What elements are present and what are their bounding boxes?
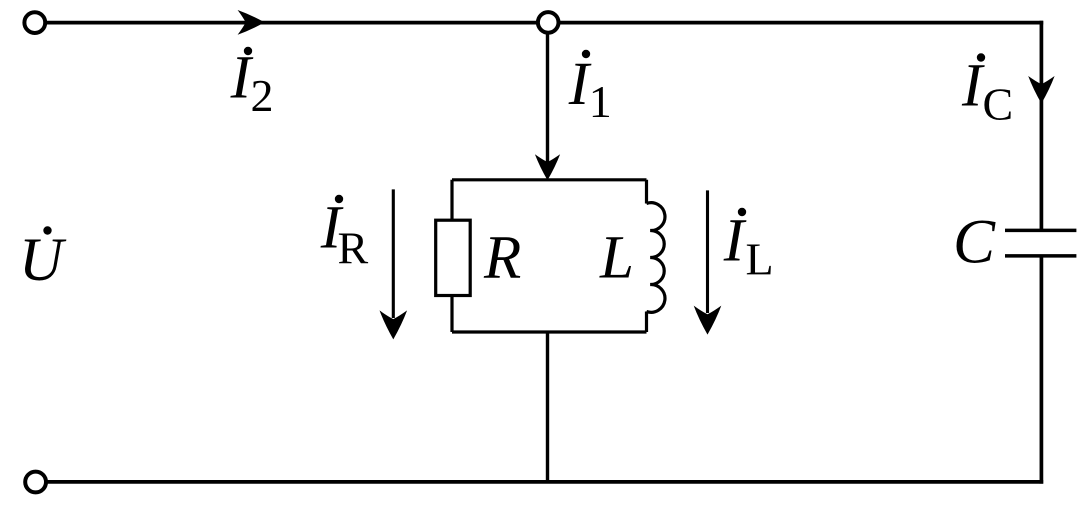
label: I1 with overdot and subscript 1: [568, 50, 612, 127]
wire: RL block bottom lead to bottom rail: [546, 332, 549, 483]
terminal: top-left open circle: [24, 12, 45, 33]
svg-text:U: U: [19, 227, 67, 294]
label: IL with overdot and subscript L: [723, 208, 774, 285]
arrowhead: current IR: [380, 310, 408, 339]
wire: right branch lower segment: [1040, 256, 1044, 484]
svg-text:L: L: [746, 233, 774, 284]
arrowhead: current IC on right branch: [1028, 76, 1054, 104]
capacitor C top plate: [1005, 229, 1076, 233]
svg-text:I: I: [723, 208, 747, 275]
arrow shaft: current IL: [706, 190, 709, 313]
wire: bottom rail: [47, 480, 1043, 484]
arrowhead: current IL: [694, 306, 722, 335]
svg-text:1: 1: [589, 76, 612, 127]
resistor R body: [436, 220, 471, 295]
arrowhead: current I2 on top rail: [238, 10, 265, 35]
svg-text:I: I: [961, 52, 985, 119]
wire: middle branch from node down to RL block: [546, 22, 549, 165]
svg-text:R: R: [338, 222, 369, 273]
arrow shaft: current IR: [392, 189, 395, 318]
label: IR with overdot and subscript R: [320, 195, 369, 274]
svg-text:C: C: [953, 207, 996, 277]
wire: top rail: [44, 21, 1043, 25]
RL block outline (top, left, bottom edges and right stubs): [452, 180, 647, 332]
svg-text:R: R: [483, 225, 521, 292]
arrowhead: current I1 on middle branch: [535, 154, 560, 180]
inductor L coil (4 loops): [647, 203, 665, 313]
svg-text:2: 2: [251, 70, 274, 121]
terminal: bottom-left open circle: [25, 472, 46, 493]
svg-text:C: C: [983, 79, 1014, 130]
capacitor C bottom plate: [1005, 254, 1076, 258]
label: I2 with overdot and subscript 2: [230, 45, 274, 122]
node: top junction open circle: [538, 12, 559, 33]
svg-text:L: L: [599, 225, 634, 292]
wire: right branch upper segment: [1040, 21, 1044, 231]
label: U (source voltage) with overdot: [19, 226, 67, 294]
label: IC with overdot and subscript C: [961, 52, 1013, 129]
